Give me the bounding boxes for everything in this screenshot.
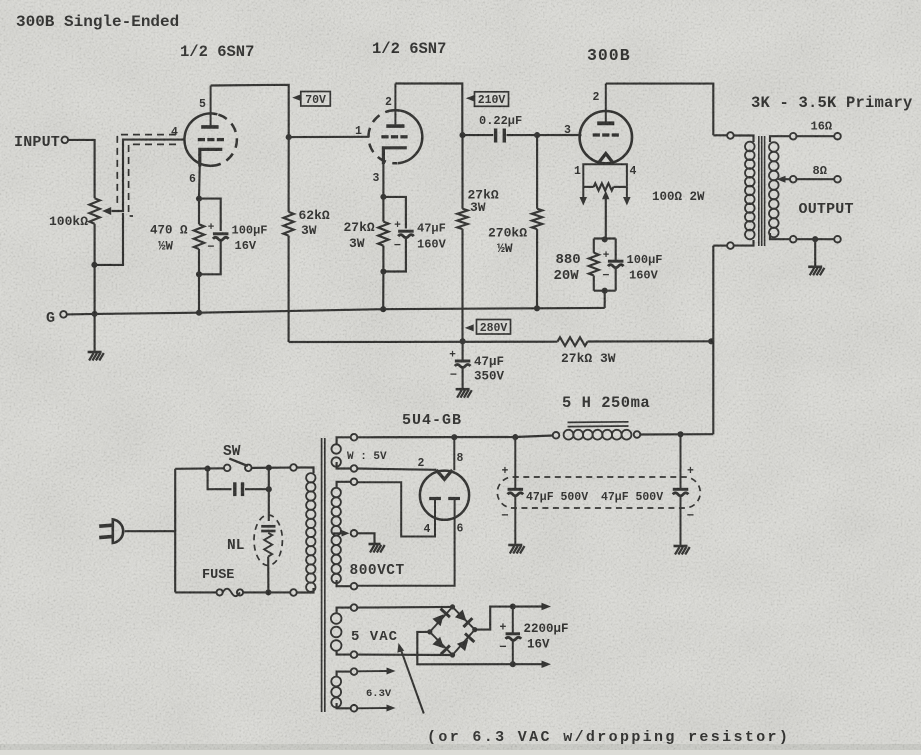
pin 2 label V3 <box>593 91 600 104</box>
wire R8 to G bus <box>604 291 606 308</box>
tube V1 plate lead <box>210 86 212 127</box>
label 6.3V <box>366 688 392 700</box>
wire mains tee <box>174 469 176 593</box>
capacitor C4 100uF plates <box>608 261 624 268</box>
junction V1 return on G bus <box>196 310 202 316</box>
label 47µF (C2) <box>417 222 446 236</box>
wire 16ohm <box>797 135 835 137</box>
tube V2 plate lead <box>394 84 396 127</box>
wire V1 cathode down <box>198 163 201 199</box>
tube V1 envelope dashed arc <box>212 114 237 166</box>
T1 6.3V winding <box>331 677 341 708</box>
wire 8ohm <box>797 178 835 180</box>
wire primary bottom <box>713 245 727 247</box>
wire V2 cathode RC to G bus <box>382 272 384 310</box>
fuse F1 left cap <box>217 589 223 595</box>
wire V2 plate top <box>395 84 462 136</box>
B+ wire from rectifier <box>357 436 552 438</box>
NL cap plates <box>261 526 275 531</box>
tube V3 filament <box>598 154 613 164</box>
label 1/2 6SN7 (V2) <box>372 40 446 58</box>
tube V1 cathode bar <box>200 149 223 166</box>
wire mains top to SW <box>175 467 224 470</box>
filament supply arrow left <box>580 187 588 206</box>
diode D3 (left-bottom) <box>432 637 450 655</box>
junction V2 cathode split <box>380 194 386 200</box>
junction V2 plate node <box>459 132 465 138</box>
label 8Ω <box>813 164 827 178</box>
C7 minus <box>687 509 695 523</box>
arrow 70V <box>292 94 301 101</box>
pin 6 label V1 <box>189 173 196 186</box>
AC plug prong bottom <box>99 536 113 537</box>
label 0.22µF <box>479 114 522 128</box>
ground symbol (C7) <box>674 546 690 555</box>
wire node A to R3 <box>288 137 290 212</box>
T1 5V stub bottom <box>337 462 351 469</box>
resistor R8 880 20W <box>589 239 599 291</box>
choke L1 coil <box>564 430 632 440</box>
tube V1 envelope solid arc <box>184 113 217 165</box>
wire R4 top <box>382 197 384 222</box>
capacitor C2 47uF plates <box>398 231 414 238</box>
shield dashed right <box>129 144 176 216</box>
G terminal <box>60 311 67 318</box>
resistor R6 270k grid leak <box>532 209 542 229</box>
label 270kΩ <box>488 226 527 241</box>
junction C7 top wire <box>677 431 683 437</box>
annotation arrow to 5VAC <box>397 643 423 714</box>
T1 HV center tap terminal <box>351 530 358 537</box>
OPT secondary coil <box>769 142 779 237</box>
pin 6 label V4 <box>457 523 464 536</box>
ground symbol (C6) <box>508 545 524 554</box>
OPT secondary stub bottom <box>770 233 790 239</box>
T1 core <box>322 438 325 712</box>
voltage box 210V <box>475 92 509 107</box>
C9 plus <box>500 622 507 635</box>
pin 1 label V2 <box>355 125 362 138</box>
label 3W (R3) <box>301 223 317 238</box>
label W : 5V <box>347 451 387 463</box>
neon lamp NL outline <box>254 515 282 565</box>
tube V1 grid dashes <box>198 138 224 141</box>
secondary common terminal <box>790 236 797 243</box>
junction C9 top <box>510 603 516 609</box>
tube V2 envelope dashed arc <box>368 110 397 163</box>
label 350V (C5) <box>474 370 505 384</box>
T1 5V stub top <box>337 437 351 444</box>
label 300B (V3) <box>587 46 631 65</box>
tube V3 grid dashes <box>593 133 619 136</box>
R8 box bottom <box>594 290 616 292</box>
primary top terminal <box>727 132 734 139</box>
wire R2 top <box>198 199 200 225</box>
junction V2 cathode RC bottom <box>380 268 386 274</box>
resistor R3 62k plate load <box>283 212 293 236</box>
label 1/2W (R2) <box>158 240 174 254</box>
post common <box>834 236 841 243</box>
label 100kΩ <box>49 214 88 229</box>
pin 3 label V3 <box>564 124 571 137</box>
arrow 210V <box>466 95 475 102</box>
junction bridge right <box>472 627 477 632</box>
pin 2 label V4 <box>418 457 425 470</box>
diode D1 (left-top) <box>432 609 450 627</box>
label 47µF 500V (C7) <box>601 491 663 504</box>
pin 3 label V2 <box>373 172 380 185</box>
title 300B Single-Ended <box>16 13 179 31</box>
hum pot wiper arrow <box>602 191 610 200</box>
capacitor C1 100uF plates <box>213 234 229 241</box>
pin 1 label V3 <box>574 165 581 178</box>
label 2200µF <box>524 622 569 636</box>
tube V3 plate lead <box>605 84 607 124</box>
R8 box top <box>594 237 616 239</box>
secondary 16ohm terminal <box>790 133 797 140</box>
280V rail right <box>588 340 712 342</box>
wire NL top lead <box>268 489 270 521</box>
wire R3 to 280V rail <box>288 236 290 342</box>
T1 5VAC terminal bottom <box>351 651 358 658</box>
capacitor C3 0.22uF plates <box>496 129 505 143</box>
label 470Ω <box>150 224 188 238</box>
T1 HV stub top <box>337 482 351 488</box>
8ohm tap arrow <box>777 176 790 183</box>
wire wiper tie-down <box>95 213 123 265</box>
junction C9 bottom <box>510 661 516 667</box>
label 62kΩ <box>299 208 330 223</box>
post 8ohm <box>834 176 841 183</box>
tube V3 plate bar <box>597 121 614 125</box>
bridge edge BL <box>430 632 453 655</box>
T1 5VAC stub top <box>337 608 351 613</box>
C2 minus <box>394 239 401 253</box>
label G <box>46 310 55 327</box>
pin 8 label V4 <box>457 452 464 465</box>
label SW <box>223 444 241 460</box>
wire R2 bottom <box>198 249 200 274</box>
resistor R5 27k plate load <box>457 209 467 229</box>
wire pot bottom to G bus <box>94 224 96 314</box>
label 3K - 3.5K Primary <box>751 94 913 112</box>
resistor R4 27k cathode <box>378 222 388 246</box>
primary bottom terminal <box>727 242 734 249</box>
T1 primary coil <box>306 473 315 592</box>
G bus wire <box>67 308 605 315</box>
T1 HV stub bottom <box>337 580 351 586</box>
wire R4 bottom <box>382 246 384 272</box>
junction R6 on G bus <box>534 305 540 311</box>
junction 300B grid node <box>534 132 540 138</box>
wire C2 bottom <box>383 239 406 272</box>
arrow 280V <box>465 324 474 331</box>
ground symbol (input) <box>88 352 104 361</box>
T1 6.3V stub bottom <box>337 703 351 708</box>
OPT core <box>759 136 765 246</box>
junction wiper to R8 <box>602 236 608 242</box>
C9 leads <box>512 607 514 665</box>
wire C3 to grid node <box>507 134 538 136</box>
ground symbol (C5) <box>456 389 472 398</box>
ground symbol (CT) <box>369 544 385 553</box>
diode D2 (top-right) <box>455 610 473 628</box>
label 16Ω <box>811 120 833 134</box>
T1 5V terminal bottom <box>351 465 358 472</box>
bridge edge TL <box>430 607 453 632</box>
secondary 8ohm terminal <box>790 176 797 183</box>
T1 6.3V stub top <box>337 672 351 677</box>
switch SW contact right <box>245 465 252 472</box>
junction R8 bottom <box>602 288 608 294</box>
wire grid node to R6 <box>536 135 538 209</box>
label 160V (C4) <box>629 269 659 283</box>
C7 leads <box>680 434 682 545</box>
label 100µF (C1) <box>232 224 268 238</box>
T1 HV center tap arrow <box>333 530 350 537</box>
V4 pin4 lead <box>357 482 435 536</box>
capacitor C9 2200uF plates <box>506 634 522 641</box>
T1 primary terminal bottom <box>290 589 297 596</box>
label 47µF (C5) <box>474 355 504 369</box>
wire V2 cathode down <box>382 161 384 197</box>
label INPUT <box>14 134 60 151</box>
label 47µF 500V (C6) <box>526 491 588 504</box>
wire common ground drop <box>814 239 816 266</box>
junction rail/C5 <box>460 338 466 344</box>
wire input to pot <box>68 140 94 198</box>
wire cathode RC to G bus <box>198 274 200 312</box>
wire wiper to R8 top <box>605 197 607 239</box>
wire cap branch down left <box>208 469 232 490</box>
T1 HV terminal bottom <box>351 583 358 590</box>
junction C6 top wire <box>512 434 518 440</box>
wire primary top <box>713 134 727 136</box>
AC plug prong top <box>99 525 113 526</box>
C4 plus <box>603 250 610 262</box>
junction cap branch left <box>205 466 211 472</box>
post 16ohm <box>834 133 841 140</box>
ground symbol (output) <box>808 267 824 276</box>
tube V3 envelope <box>580 111 632 163</box>
input terminal <box>62 137 69 144</box>
label 16V (C9) <box>527 638 550 652</box>
shield dashed left <box>117 135 176 207</box>
label 100µF (C4) <box>627 253 663 267</box>
wire bridge DC+ riser <box>475 607 544 630</box>
bridge edge TR <box>453 607 475 630</box>
T1 5V winding <box>332 444 341 466</box>
wire to C2 <box>383 197 406 229</box>
OPT secondary stub top <box>770 136 790 142</box>
junction cap branch right <box>266 465 272 471</box>
choke L1 right terminal <box>634 431 641 438</box>
T1 HV winding <box>332 488 341 583</box>
wire mains bottom to fuse <box>175 591 216 593</box>
wire common <box>797 238 835 240</box>
wire V1 plate top <box>211 85 289 137</box>
OPT primary stub bottom <box>734 240 754 246</box>
label 27kΩ (R4) <box>344 220 375 235</box>
wire NL bottom lead <box>267 557 269 593</box>
label 880 <box>556 252 581 268</box>
tube V2 envelope solid arc <box>395 110 423 163</box>
C2 plus <box>394 220 401 232</box>
wire SW to primary <box>252 467 291 469</box>
label 16V (C1) <box>235 239 257 253</box>
pin 4 label V4 <box>424 523 431 536</box>
DC+ arrow <box>542 603 552 610</box>
pin 4 label V3 <box>630 165 637 178</box>
filament bracket <box>583 164 627 187</box>
junction wiper tie to pot <box>91 262 97 268</box>
tube V2 cathode bar <box>383 148 406 164</box>
resistor R2 470 ohm <box>194 224 204 249</box>
junction V1 cathode split <box>196 196 202 202</box>
wire 5VAC top to bridge <box>357 606 452 609</box>
OPT primary coil <box>745 142 755 240</box>
T1 6.3V terminal bottom <box>351 705 358 712</box>
label 5 H 250ma <box>562 394 650 412</box>
bridge edge BR <box>453 630 475 655</box>
resistor R9 27k dropper <box>558 337 588 346</box>
filament supply arrow right <box>623 187 631 206</box>
wire to C1 <box>199 199 221 231</box>
T1 primary stub bottom <box>297 588 314 593</box>
junction V2 return on G bus <box>380 306 386 312</box>
wire 5VAC bottom to bridge <box>357 654 452 657</box>
wire V2 plate node to R5 <box>461 135 463 209</box>
wire cap branch right <box>245 468 269 490</box>
fuse F1 element <box>223 589 240 597</box>
junction bridge top <box>450 604 455 609</box>
280V rail left <box>289 341 558 343</box>
wire bridge DC- rail <box>417 632 543 664</box>
label 27kΩ 3W (R9) <box>561 351 616 366</box>
capacitor C6 47uF 500V plates <box>508 489 524 496</box>
T1 primary terminal top <box>290 464 297 471</box>
tube V1 plate bar <box>201 125 218 129</box>
V4 pin8 lead <box>453 437 455 470</box>
junction V1 cathode RC bottom <box>196 271 202 277</box>
pin 5 label V1 <box>199 98 206 111</box>
V4 pin6 lead <box>357 499 454 586</box>
junction pin8 top wire <box>451 434 457 440</box>
hum pot R7 100 ohm element <box>583 183 627 190</box>
C1 plus <box>208 222 215 234</box>
C9 minus <box>499 641 507 655</box>
note (or 6.3 VAC w/dropping resistor) <box>427 729 790 746</box>
voltage box 70V <box>301 92 331 107</box>
T1 primary stub top <box>297 468 314 474</box>
wire pot ground drop <box>94 314 96 352</box>
pin 4 label V1 <box>171 126 178 139</box>
NL resistor <box>264 533 272 557</box>
switch SW lever <box>229 459 248 466</box>
junction common ground <box>812 236 818 242</box>
wire R5 to 280V rail <box>461 229 463 341</box>
C7 plus <box>687 465 694 478</box>
capacitor C5 47uF plates <box>455 361 471 368</box>
label 5 VAC <box>351 629 398 645</box>
voltage box 280V <box>477 320 511 335</box>
junction NL top <box>266 486 272 492</box>
V4 filament V <box>436 470 452 479</box>
wire grid node to V3 <box>537 134 581 136</box>
C6 minus <box>501 509 509 523</box>
wire R6 to G bus <box>536 229 538 308</box>
C5 leads <box>462 341 464 389</box>
junction bridge left <box>427 629 432 634</box>
label OUTPUT <box>799 201 854 218</box>
capacitor C7 47uF 500V plates <box>673 489 689 496</box>
T1 5V terminal top <box>351 434 358 441</box>
V4 plate left bar <box>429 497 441 500</box>
junction NL bottom <box>265 589 271 595</box>
OPT primary stub top <box>734 136 754 143</box>
label FUSE <box>202 568 234 583</box>
capacitor C8 mains plates <box>235 482 243 496</box>
choke L1 left terminal <box>553 432 560 439</box>
label 1/2W (R6) <box>497 241 513 256</box>
wire fuse to primary <box>243 591 290 593</box>
B+ riser wire <box>712 246 714 435</box>
tube V2 plate bar <box>386 124 404 128</box>
filter can dashed outline <box>497 477 700 508</box>
potentiometer VR1 100k element <box>89 198 100 224</box>
label 1/2 6SN7 (V1) <box>180 43 254 61</box>
fuse F1 right cap <box>237 589 243 595</box>
node A junction (V1 plate/V2 grid) <box>286 134 292 140</box>
label NL <box>227 538 244 554</box>
6.3V arrow bottom <box>357 705 395 712</box>
tube V2 grid dashes <box>381 135 407 138</box>
label 800VCT <box>350 563 405 579</box>
junction pot on G bus <box>92 311 98 317</box>
T1 5VAC terminal top <box>351 604 358 611</box>
wire CT to ground <box>357 533 374 543</box>
AC plug body <box>113 519 123 543</box>
switch SW contact left <box>224 465 231 472</box>
wire C1 bottom <box>199 241 221 274</box>
label 20W <box>554 268 580 284</box>
pot wiper arrow <box>102 207 111 215</box>
T1 6.3V terminal top <box>351 668 358 675</box>
pin 2 label V2 <box>385 96 392 109</box>
wire wiper to grid (shielded) <box>112 140 185 211</box>
C5 plus <box>449 350 456 362</box>
label 27kΩ (R5) <box>468 188 499 203</box>
C4 minus <box>602 269 609 283</box>
label 100Ω 2W <box>652 190 705 204</box>
wire node A to V2 grid <box>289 136 370 138</box>
choke L1 core <box>568 422 629 427</box>
tube V4 envelope <box>420 471 469 520</box>
label 3W (R4) <box>349 236 365 251</box>
T1 5VAC stub bottom <box>337 650 351 655</box>
T1 5VAC winding <box>331 613 342 651</box>
junction rail to B+ riser <box>708 338 714 344</box>
C5 minus <box>450 368 457 382</box>
junction bridge bottom <box>450 652 455 657</box>
C6 plus <box>502 465 509 478</box>
DC- arrow <box>542 661 552 669</box>
wire to C3 <box>463 134 494 136</box>
wire choke to riser <box>640 433 713 435</box>
C1 minus <box>207 240 214 254</box>
T1 HV terminal top <box>351 479 358 486</box>
6.3V arrow top <box>357 668 395 675</box>
